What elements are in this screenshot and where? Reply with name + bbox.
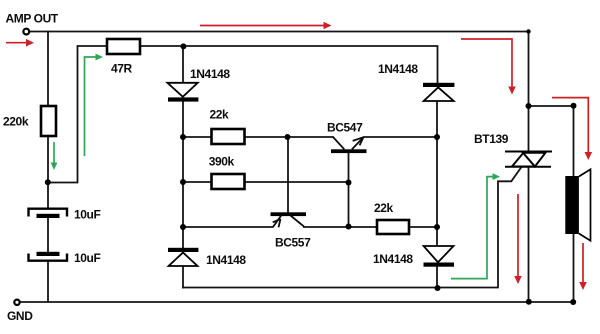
- svg-text:220k: 220k: [3, 115, 29, 129]
- svg-text:10uF: 10uF: [74, 208, 100, 222]
- svg-text:47R: 47R: [111, 62, 133, 76]
- svg-text:1N4148: 1N4148: [373, 252, 413, 266]
- svg-text:BC557: BC557: [275, 236, 311, 250]
- svg-text:BT139: BT139: [474, 132, 509, 146]
- svg-text:AMP OUT: AMP OUT: [6, 12, 59, 26]
- svg-text:1N4148: 1N4148: [378, 62, 418, 76]
- svg-text:22k: 22k: [210, 108, 230, 122]
- svg-text:390k: 390k: [209, 155, 235, 169]
- svg-text:22k: 22k: [374, 201, 394, 215]
- svg-text:BC547: BC547: [327, 121, 363, 135]
- svg-text:1N4148: 1N4148: [206, 253, 246, 267]
- svg-text:GND: GND: [7, 309, 33, 323]
- svg-text:1N4148: 1N4148: [190, 67, 230, 81]
- svg-text:10uF: 10uF: [74, 251, 100, 265]
